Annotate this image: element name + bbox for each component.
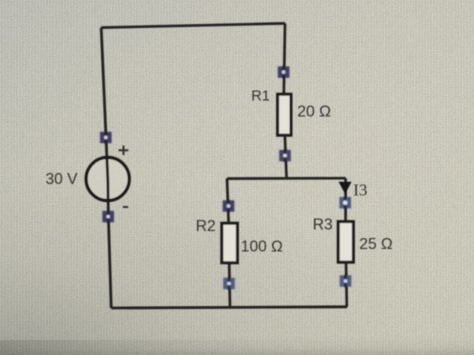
wire: top horizontal	[101, 23, 285, 27]
handle: R3 bottom	[340, 275, 352, 287]
handle: source top	[100, 131, 112, 143]
handle: R1 bottom	[279, 149, 291, 161]
svg-text:20 Ω: 20 Ω	[297, 104, 331, 121]
handle: R1 top	[278, 66, 290, 78]
wire: left branch upper (to R2)	[227, 179, 229, 224]
svg-text:I3: I3	[353, 180, 367, 199]
handle: source bottom	[102, 210, 114, 222]
handle: R2 top	[223, 200, 235, 212]
handle: R2 bottom	[223, 277, 235, 289]
wire: parallel-section top horizontal	[227, 177, 346, 180]
wire: left branch lower (R2 to bottom)	[228, 262, 232, 308]
resistor R2 body	[222, 223, 238, 263]
wire: right branch upper (to R3)	[344, 178, 347, 222]
resistor R1 body	[278, 94, 291, 135]
wire: R1 bottom to junction	[285, 134, 287, 179]
svg-text:30 V: 30 V	[46, 171, 79, 188]
voltage source + mark	[119, 146, 129, 156]
wire: bottom horizontal	[111, 307, 347, 308]
current arrow I3	[339, 182, 352, 194]
handle: R3 top	[339, 197, 351, 209]
voltage source interior highlight	[88, 159, 128, 199]
wire: right branch lower (R3 to bottom)	[345, 262, 348, 308]
wire: right vertical from top to R1	[284, 23, 285, 95]
svg-text:R2: R2	[196, 218, 216, 235]
svg-text:100 Ω: 100 Ω	[241, 238, 283, 255]
svg-text:25 Ω: 25 Ω	[359, 236, 392, 253]
svg-text:R3: R3	[313, 216, 333, 233]
wire: left vertical through source	[101, 28, 111, 308]
resistor R3 body	[338, 222, 353, 263]
svg-text:R1: R1	[251, 88, 270, 104]
voltage source V1 circle	[86, 157, 129, 200]
voltage source - mark	[123, 206, 128, 208]
